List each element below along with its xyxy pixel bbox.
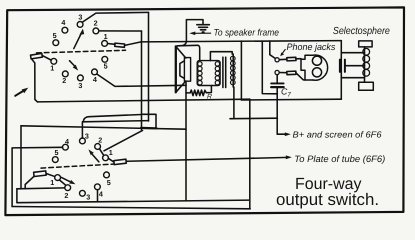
wire box to coil top <box>341 52 364 54</box>
wire from S1A contact 1 <box>108 43 115 46</box>
switch S2 deck C contact 4 <box>63 144 69 150</box>
phone jack box right edge <box>340 41 342 100</box>
switch S1 deck B wiper arrow <box>70 61 79 71</box>
ground symbol <box>197 25 209 32</box>
switch S2 deck D wiper arrow <box>61 177 76 184</box>
wire S2D contact 1-2 link <box>60 180 66 185</box>
wire terminal 1 hook <box>270 41 275 58</box>
phone plug barrel arc <box>313 55 328 80</box>
selectosphere coil wire <box>364 47 366 82</box>
wiper lug rect S2D <box>34 171 47 177</box>
svg-text:3: 3 <box>78 12 82 21</box>
selectosphere bottom block <box>359 82 374 90</box>
wire from S2C contact 3 <box>82 121 148 138</box>
wire lug1 to plug <box>296 58 301 60</box>
wiper lug rect S2C <box>114 159 127 164</box>
selectosphere coil loops <box>363 48 370 76</box>
svg-text:C7: C7 <box>281 87 291 99</box>
wire lug2 to plug <box>296 73 305 80</box>
svg-text:5: 5 <box>104 62 108 71</box>
wire jog to lower bundle <box>142 114 157 128</box>
svg-text:3: 3 <box>86 193 90 202</box>
vertical wire from T1 right winding <box>233 87 235 119</box>
arrowhead B+ <box>285 132 291 136</box>
capacitor C7 <box>271 83 283 87</box>
svg-text:5: 5 <box>107 178 111 187</box>
switch S1 deck A contact 4 <box>62 27 68 33</box>
wire S1A lug to phone jack box <box>125 42 141 46</box>
wire from S1A contact 3 <box>83 12 149 22</box>
svg-text:5: 5 <box>53 31 57 40</box>
long wire to phone jacks (top) <box>141 41 341 42</box>
switch S2 deck D contact 5 <box>104 172 110 178</box>
wire speaker top to transformer <box>177 45 200 60</box>
wire horizontal to S2D contact 2 <box>17 187 65 190</box>
wire T1 top link <box>210 52 232 61</box>
svg-text:2: 2 <box>64 191 68 200</box>
svg-text:2: 2 <box>94 19 98 28</box>
switch S1 deck B contact 3 <box>78 75 84 81</box>
wire S2D lug down left <box>25 176 34 188</box>
switch S2 deck C wiper arrow <box>88 149 99 162</box>
svg-text:Selectosphere: Selectosphere <box>333 26 390 37</box>
switch S2 deck C contact 2 <box>95 144 101 150</box>
wire box to coil bottom <box>341 77 364 79</box>
svg-text:To speaker frame: To speaker frame <box>214 27 280 38</box>
vertical wire from S1A contact 2 line <box>141 31 143 130</box>
arrowhead to plate of tube <box>286 155 292 159</box>
switch S2 deck C contact 1 <box>103 155 109 161</box>
wire bundle line L1 <box>84 115 142 121</box>
diagonal wire to S2C contacts 1-2 <box>104 130 143 150</box>
jack lug rect 2 <box>287 71 296 75</box>
phone plug ring 1 <box>312 56 321 65</box>
svg-text:4: 4 <box>99 190 103 199</box>
switch S2 deck C contact 3 <box>80 138 86 144</box>
label arrow phone jacks <box>280 50 285 57</box>
switch S1 deck B contact 4 <box>92 69 98 75</box>
resistor R <box>186 86 211 96</box>
long wire W1 across middle <box>38 99 250 102</box>
bottom bus A <box>17 189 249 203</box>
T1 secondary winding loops (bobbin right) <box>215 62 219 85</box>
switch S1 deck A contact 1 <box>102 41 108 47</box>
wire from S1A contact 2 <box>99 30 142 32</box>
svg-text:4: 4 <box>93 75 97 84</box>
wire C7 to B+ <box>277 87 287 134</box>
switch S1 deck A contact 5 <box>53 40 59 46</box>
svg-text:1: 1 <box>104 32 108 41</box>
gang dashed link S1 <box>37 50 126 53</box>
coupling capacitor <box>340 60 345 72</box>
switch S2 deck C contact 5 <box>52 157 58 163</box>
speaker inner cone <box>180 61 185 79</box>
svg-text:To Plate of tube (6F6): To Plate of tube (6F6) <box>294 154 385 164</box>
svg-text:4: 4 <box>65 137 69 146</box>
svg-text:1: 1 <box>50 64 54 73</box>
wire terminal 1 to lug <box>279 58 286 60</box>
jack lug rect 1 <box>287 57 296 61</box>
switch S1 deck A wiper arrow <box>74 29 84 49</box>
svg-text:5: 5 <box>55 148 59 157</box>
phone jack terminal 1 <box>275 58 279 62</box>
T1 core laminations <box>222 57 224 87</box>
wire bundle line L3 <box>21 126 186 129</box>
phone plug body <box>301 55 313 80</box>
vertical wire x241 <box>240 41 242 100</box>
speaker cone bottom <box>176 81 186 92</box>
wire S2C contact 2-1 link <box>100 149 104 156</box>
wire from S2C contact 4 <box>12 147 62 206</box>
switch S2 deck D contact 3 <box>80 190 86 196</box>
svg-text:1: 1 <box>109 148 113 157</box>
svg-text:4: 4 <box>61 18 65 27</box>
switch S2 deck D contact 2 <box>65 185 71 191</box>
speaker cone mouth <box>175 46 177 92</box>
switch S2 deck D contact 4 <box>95 184 101 190</box>
wire S2C lug to plate arrow <box>126 157 288 161</box>
T1 primary winding loops <box>198 62 202 85</box>
wire from S1B contact 4 to speaker coil <box>97 74 186 86</box>
svg-text:2: 2 <box>98 135 102 144</box>
wire speaker frame to ground <box>177 20 203 46</box>
phone jack box bottom <box>241 98 341 101</box>
wire terminal 2 to lug <box>279 72 286 74</box>
svg-text:2: 2 <box>62 76 66 85</box>
switch S1 deck B contact 5 <box>102 56 108 62</box>
svg-text:R: R <box>207 94 212 101</box>
pointer arrow icon <box>15 88 28 96</box>
svg-text:Phone jacks: Phone jacks <box>287 41 336 52</box>
wire y118 to C7 node <box>230 117 277 120</box>
wire S2C pivot to lug <box>108 158 114 162</box>
vertical wire from S1A contact 3 line <box>148 12 150 121</box>
speaker cone top <box>176 46 186 58</box>
wire S2D lug to pivot <box>46 174 54 177</box>
switch S1 deck A contact 3 <box>77 22 83 28</box>
vertical wire speaker coil / resistor node <box>185 81 187 200</box>
wire jack to C7 <box>276 75 278 84</box>
wire capacitor to coil <box>345 65 365 67</box>
wire S1B lug to pivot <box>42 56 51 60</box>
svg-text:1: 1 <box>50 178 54 187</box>
wire S2D contact 4 down <box>97 190 99 202</box>
speaker voice coil box <box>184 58 190 82</box>
svg-text:output switch.: output switch. <box>276 190 379 209</box>
wiper lug rect S1B <box>31 53 43 59</box>
svg-text:3: 3 <box>85 132 89 141</box>
junction node bar <box>141 127 157 130</box>
vertical wire x250 <box>249 99 251 209</box>
transformer T1 bobbin <box>197 61 220 86</box>
gang dashed link S2 <box>41 164 113 168</box>
phone plug ring 2 <box>312 68 321 77</box>
bottom bus B <box>12 207 250 209</box>
phone jack terminal 2 <box>275 70 279 74</box>
switch S1 deck A contact 2 <box>93 28 99 34</box>
selectosphere top block <box>359 41 372 47</box>
wire S1B lug down to long bus <box>32 59 38 102</box>
T1 right winding <box>232 54 234 87</box>
switch S1 deck B contact 1 <box>51 58 57 64</box>
svg-text:B+ and screen of 6F6: B+ and screen of 6F6 <box>293 129 382 139</box>
wiper lug rect S1A <box>115 43 125 47</box>
switch S2 deck D contact 1 <box>55 175 61 181</box>
switch S1 deck B contact 2 <box>62 71 68 77</box>
vertical wire left x21 <box>20 126 22 189</box>
arrow to speaker frame <box>189 32 210 36</box>
svg-text:3: 3 <box>78 81 82 90</box>
vertical wire x262 <box>262 41 277 94</box>
